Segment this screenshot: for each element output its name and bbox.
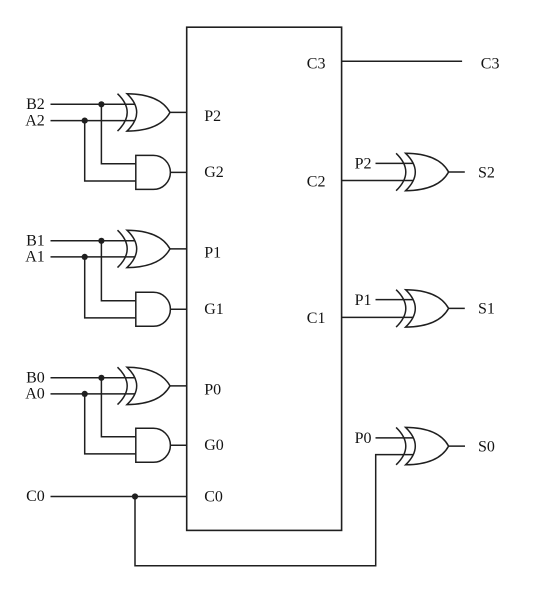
- wire B2 input: [51, 103, 137, 105]
- junction dot on A1: [82, 254, 88, 260]
- wire B0 to AND upper input: [101, 378, 136, 437]
- svg-text:S2: S2: [478, 164, 495, 181]
- svg-text:B1: B1: [26, 232, 45, 249]
- XOR gate producing S1: [406, 290, 449, 327]
- junction dot on B0: [98, 375, 104, 381]
- AND gate producing G2: [136, 155, 171, 189]
- wire P0 stub: [376, 437, 415, 439]
- wire B0 input: [51, 377, 137, 379]
- wire A0 to AND lower input: [85, 394, 137, 454]
- wire XOR output P0 to block: [170, 385, 187, 387]
- wire AND output G1 to block: [170, 308, 187, 310]
- XOR gate producing S2: [406, 153, 449, 190]
- junction dot on C0: [132, 493, 138, 499]
- wire P2 stub: [376, 162, 415, 164]
- svg-text:C3: C3: [307, 55, 326, 72]
- svg-text:C3: C3: [481, 55, 500, 72]
- wire S2 output: [448, 171, 465, 173]
- wire A1 input: [51, 256, 137, 258]
- XOR gate producing P1: [127, 230, 170, 267]
- svg-text:P1: P1: [204, 245, 221, 262]
- svg-text:C0: C0: [26, 488, 45, 505]
- wire B1 input: [51, 240, 137, 242]
- AND gate producing G0: [136, 428, 171, 462]
- svg-text:A2: A2: [25, 112, 45, 129]
- wire A2 input: [51, 120, 137, 122]
- wire B2 to AND upper input: [101, 104, 136, 164]
- svg-text:A1: A1: [25, 249, 45, 266]
- wire S0 output: [448, 445, 465, 447]
- svg-text:P2: P2: [204, 108, 221, 125]
- wire B1 to AND upper input: [101, 241, 136, 301]
- wire P1 stub: [376, 299, 415, 301]
- svg-text:S0: S0: [478, 438, 495, 455]
- junction dot on A0: [82, 391, 88, 397]
- wire A2 to AND lower input: [85, 121, 137, 181]
- wire C2 from block to XOR: [342, 180, 415, 182]
- junction dot on B2: [98, 101, 104, 107]
- svg-text:P0: P0: [355, 430, 372, 447]
- svg-text:C0: C0: [204, 488, 223, 505]
- AND gate producing G1: [136, 292, 171, 326]
- svg-text:C2: C2: [307, 174, 326, 191]
- XOR gate producing P2: [127, 94, 170, 131]
- svg-text:C1: C1: [307, 310, 326, 327]
- wire AND output G0 to block: [170, 444, 187, 446]
- junction dot on B1: [98, 238, 104, 244]
- svg-text:S1: S1: [478, 301, 495, 318]
- XOR gate producing P0: [127, 367, 170, 404]
- wire S1 output: [448, 307, 465, 309]
- wire AND output G2 to block: [170, 171, 187, 173]
- svg-text:P0: P0: [204, 381, 221, 398]
- svg-text:A0: A0: [25, 386, 45, 403]
- svg-text:G2: G2: [204, 164, 224, 181]
- wire A1 to AND lower input: [85, 257, 137, 318]
- wire XOR output P1 to block: [170, 248, 187, 250]
- svg-text:G0: G0: [204, 437, 224, 454]
- wire C1 from block to XOR: [342, 316, 415, 318]
- svg-text:B0: B0: [26, 369, 45, 386]
- wire C0 input: [51, 496, 187, 498]
- carry-lookahead block U1: [187, 27, 342, 530]
- svg-text:B2: B2: [26, 96, 45, 113]
- junction dot on A2: [82, 118, 88, 124]
- wire XOR output P2 to block: [170, 111, 187, 113]
- svg-text:G1: G1: [204, 301, 224, 318]
- wire C3 output: [342, 60, 463, 62]
- XOR gate producing S0: [406, 427, 449, 464]
- wire C0 to S0 XOR lower input: [135, 455, 415, 566]
- wire A0 input: [51, 393, 137, 395]
- svg-text:P1: P1: [355, 292, 372, 309]
- svg-text:P2: P2: [355, 156, 372, 173]
